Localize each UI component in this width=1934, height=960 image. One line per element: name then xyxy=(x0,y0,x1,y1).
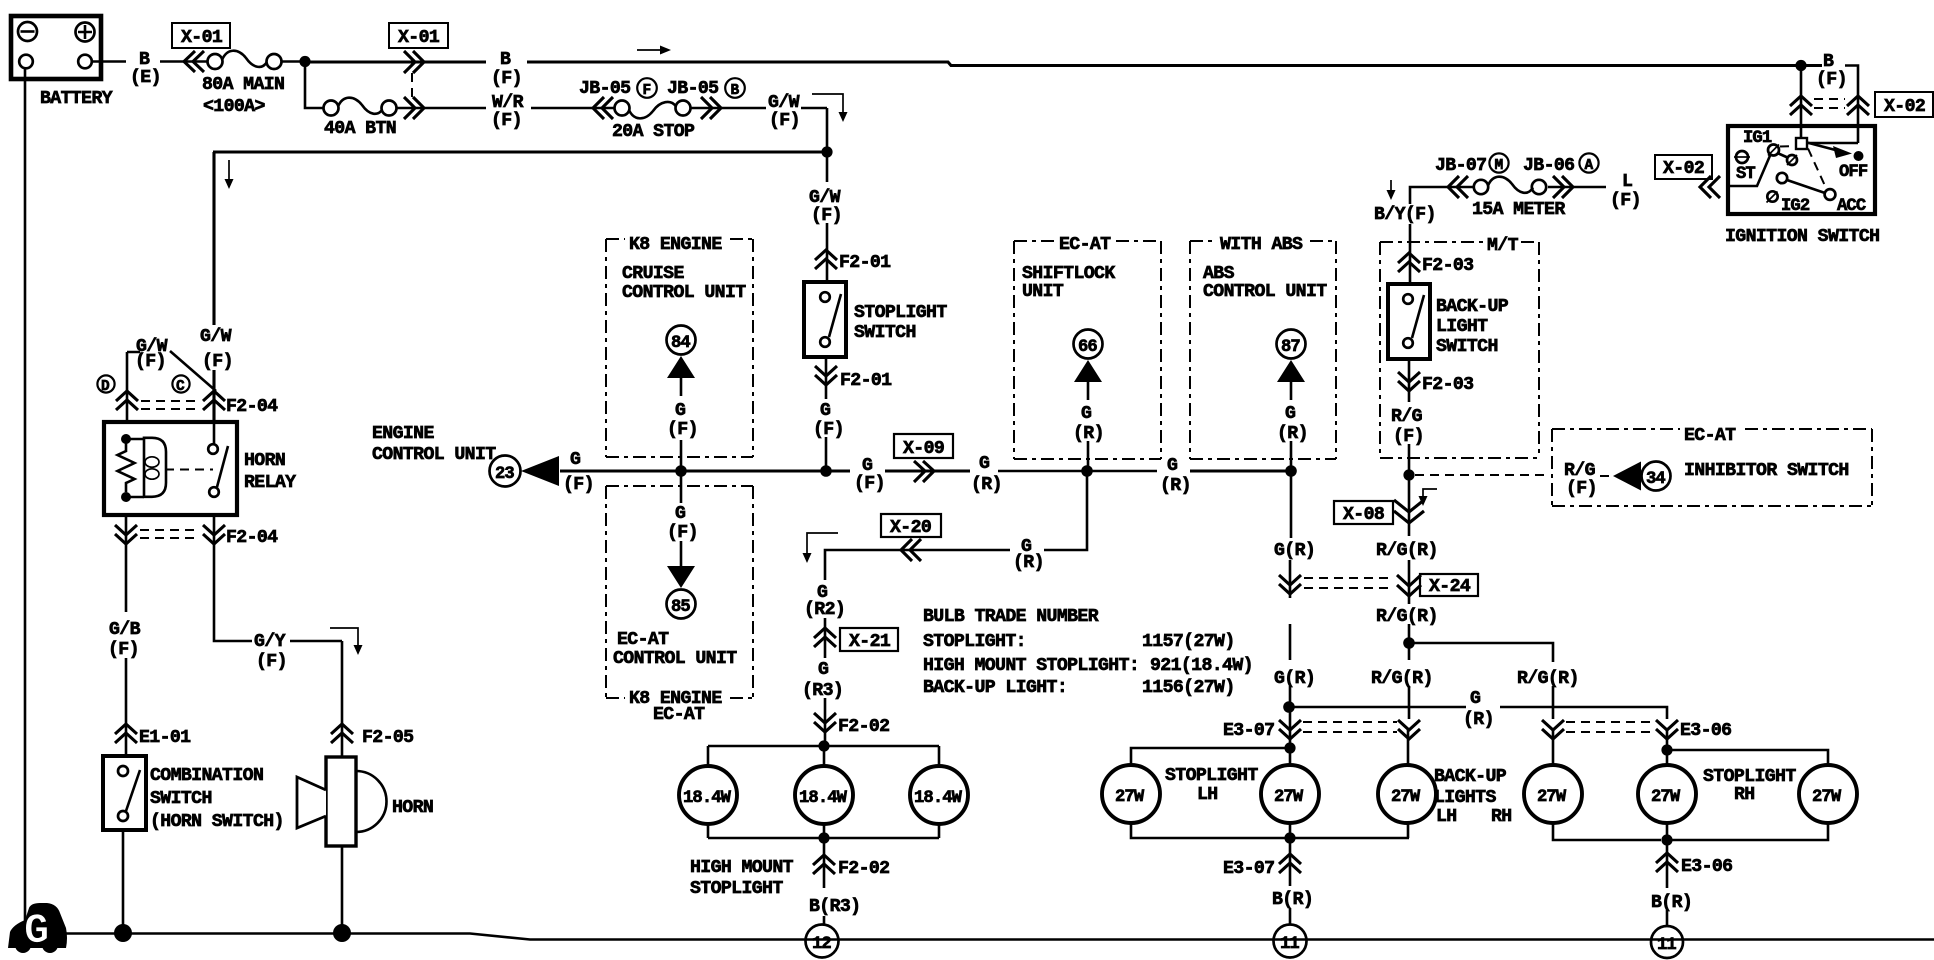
svg-text:BACK-UP: BACK-UP xyxy=(1434,767,1507,787)
SEC-RIGHTMID xyxy=(1014,224,1872,743)
connector E3-06 bottom xyxy=(1656,853,1732,877)
ABS control unit box WITH ABS xyxy=(1190,235,1336,459)
SEC-MIDDLE xyxy=(372,235,1291,958)
svg-text:B: B xyxy=(1823,52,1834,72)
svg-text:F2-04: F2-04 xyxy=(226,397,278,417)
EC-AT control unit terminal 85 xyxy=(667,566,696,619)
junction dot G(R) lamp bus xyxy=(1283,701,1295,713)
connector F2-02 bottom xyxy=(813,855,889,879)
connector X-08 label box xyxy=(1334,501,1393,525)
svg-text:JB-05: JB-05 xyxy=(579,79,630,99)
svg-text:20A STOP: 20A STOP xyxy=(612,122,695,142)
leader line diagonal xyxy=(170,351,216,391)
svg-text:G: G xyxy=(675,401,686,421)
svg-text:STOPLIGHT: STOPLIGHT xyxy=(854,303,947,323)
connector X-02 chevrons pin A xyxy=(1790,96,1812,115)
svg-text:UNIT: UNIT xyxy=(1022,282,1064,302)
svg-text:M/T: M/T xyxy=(1487,236,1519,256)
svg-text:G/W: G/W xyxy=(200,327,232,347)
svg-text:IGNITION SWITCH: IGNITION SWITCH xyxy=(1725,227,1879,247)
horn relay link dashed xyxy=(165,469,213,471)
svg-text:E3-06: E3-06 xyxy=(1680,721,1731,741)
wire backup RH branch xyxy=(1409,643,1553,719)
connector X-02 label box (left) xyxy=(1655,155,1712,179)
svg-text:(F): (F) xyxy=(108,640,139,660)
svg-text:X-02: X-02 xyxy=(1663,159,1704,179)
shiftlock terminal 66 xyxy=(1074,330,1103,401)
svg-text:(F): (F) xyxy=(135,352,166,372)
direction arrow right xyxy=(637,46,671,55)
svg-text:(F): (F) xyxy=(202,352,233,372)
svg-text:ACC: ACC xyxy=(1837,197,1866,216)
svg-text:15A METER: 15A METER xyxy=(1472,200,1565,220)
battery xyxy=(11,16,113,109)
back-up lamp LH xyxy=(1378,765,1436,823)
svg-text:G: G xyxy=(570,450,581,470)
svg-text:A: A xyxy=(1585,158,1594,174)
junction dot ground horn xyxy=(333,924,351,942)
wire to bus xyxy=(825,437,828,468)
connector X-20 chevrons xyxy=(901,539,921,561)
connector F2-05 xyxy=(331,724,413,748)
junction dot stoplight RH bottom xyxy=(1661,834,1672,845)
junction dot R/G inhibitor xyxy=(1403,469,1414,480)
engine control unit terminal 23 xyxy=(490,456,560,487)
label G(R) x20 xyxy=(1013,536,1044,573)
stoplight RH lamp 1 xyxy=(1638,765,1696,823)
svg-text:OFF: OFF xyxy=(1839,163,1868,182)
ignition switch arm C-ACC xyxy=(1777,173,1825,193)
svg-text:F2-03: F2-03 xyxy=(1422,256,1473,276)
svg-text:40A BTN: 40A BTN xyxy=(324,119,396,139)
svg-text:B(R): B(R) xyxy=(1272,890,1313,910)
wire G(F) stoplight switch xyxy=(825,357,828,399)
svg-text:84: 84 xyxy=(671,334,690,353)
wire R/G(F) xyxy=(1408,359,1411,471)
connector X-01 chevrons on W/R xyxy=(404,97,424,119)
svg-text:LIGHT: LIGHT xyxy=(1436,317,1488,337)
wire G(R) branch X-20 xyxy=(825,476,1087,580)
wire G(R) down from abs junction xyxy=(1290,476,1291,598)
svg-text:EC-AT: EC-AT xyxy=(617,630,669,650)
connector X-08 chevrons xyxy=(1394,500,1424,523)
connector X-24 chevron left xyxy=(1279,575,1301,594)
svg-text:JB-07: JB-07 xyxy=(1435,156,1486,176)
connector JB-05 chevrons right xyxy=(701,97,721,119)
horn xyxy=(297,757,433,846)
svg-text:G/Y: G/Y xyxy=(254,632,286,652)
horn relay coil circuit xyxy=(118,434,167,502)
svg-text:(F): (F) xyxy=(1566,479,1597,499)
ignition switch ST contact xyxy=(1734,151,1755,184)
svg-text:STOPLIGHT: STOPLIGHT xyxy=(1165,766,1258,786)
ignition switch ACC contact xyxy=(1825,189,1866,216)
svg-text:K8 ENGINE: K8 ENGINE xyxy=(629,235,722,255)
svg-text:RELAY: RELAY xyxy=(244,473,296,493)
svg-text:(R3): (R3) xyxy=(802,681,843,701)
junction dot cruise xyxy=(675,465,687,477)
wire dashed to inhibitor switch xyxy=(1415,474,1549,476)
wire 40A branch xyxy=(305,61,324,108)
wire stoplight LH lamp rail xyxy=(1131,748,1290,765)
svg-text:RH: RH xyxy=(1491,807,1512,827)
stoplight switch contacts xyxy=(820,292,841,347)
ignition switch dashed linkages xyxy=(1780,146,1826,188)
connector E3-07 chevron left xyxy=(1223,720,1301,741)
svg-text:EC-AT: EC-AT xyxy=(1684,426,1736,446)
svg-text:IG1: IG1 xyxy=(1743,129,1772,148)
svg-text:X-01: X-01 xyxy=(181,28,223,48)
svg-text:X-20: X-20 xyxy=(890,518,931,538)
cruise terminal 84 xyxy=(667,326,696,397)
ground terminal 11 left xyxy=(1274,925,1307,958)
svg-text:G/B: G/B xyxy=(109,620,141,640)
high mount stoplight lamps xyxy=(679,746,968,844)
fuse 80A MAIN xyxy=(202,51,300,117)
svg-text:12: 12 xyxy=(812,935,831,954)
connector X-24 chevron right xyxy=(1397,575,1421,596)
back-up light switch box xyxy=(1388,284,1430,359)
svg-text:80A MAIN: 80A MAIN xyxy=(202,75,284,95)
wire to terminal 85 xyxy=(680,541,683,567)
svg-text:B/Y(F): B/Y(F) xyxy=(1374,205,1436,225)
svg-text:SHIFTLOCK: SHIFTLOCK xyxy=(1022,264,1115,284)
svg-text:IG2: IG2 xyxy=(1781,197,1810,216)
svg-text:27W: 27W xyxy=(1537,788,1567,807)
wire bus G(R) to ABS xyxy=(1190,469,1291,472)
ground terminal 12 xyxy=(806,925,839,958)
svg-text:R/G(R): R/G(R) xyxy=(1376,541,1438,561)
svg-text:STOPLIGHT: STOPLIGHT xyxy=(1703,767,1796,787)
wire B(F) long to right xyxy=(527,62,1822,66)
wire stoplight RH bottom rail xyxy=(1667,823,1828,840)
stoplight LH lamp 2 xyxy=(1261,765,1319,823)
wire R/G down to X-08 xyxy=(1408,480,1411,536)
svg-text:X-01: X-01 xyxy=(398,28,440,48)
svg-text:F2-02: F2-02 xyxy=(838,717,889,737)
svg-text:JB-06: JB-06 xyxy=(1523,156,1574,176)
fuse 15A METER xyxy=(1472,177,1565,220)
ground terminal 11 right xyxy=(1651,926,1683,958)
svg-text:BACK-UP LIGHT:: BACK-UP LIGHT: xyxy=(923,678,1067,698)
svg-text:ENGINE: ENGINE xyxy=(372,424,434,444)
svg-text:X-08: X-08 xyxy=(1343,505,1384,525)
svg-text:LH: LH xyxy=(1197,785,1218,805)
connector E3-06 dashed links xyxy=(1566,722,1655,732)
junction dot stoplight RH top xyxy=(1661,744,1672,755)
wire G/W left branch xyxy=(213,152,827,424)
wire L(F) xyxy=(1548,186,1606,189)
junction dot abs xyxy=(1285,465,1297,477)
connector JB chevrons right of meter fuse xyxy=(1553,176,1573,198)
svg-text:G: G xyxy=(1285,404,1296,424)
fuse 40A BTN xyxy=(324,98,397,139)
cruise control unit box K8 ENGINE xyxy=(606,235,753,457)
svg-text:(HORN SWITCH): (HORN SWITCH) xyxy=(150,812,284,832)
svg-text:18.4W: 18.4W xyxy=(683,789,732,808)
svg-text:G/W: G/W xyxy=(809,188,841,208)
svg-text:HORN: HORN xyxy=(244,451,285,471)
svg-text:SWITCH: SWITCH xyxy=(1436,337,1498,357)
svg-text:LH: LH xyxy=(1436,807,1457,827)
direction arrow down B/Y xyxy=(1387,180,1396,200)
connector E3-06 chevron right xyxy=(1656,720,1731,741)
svg-text:1157(27W): 1157(27W) xyxy=(1142,632,1235,652)
svg-text:C: C xyxy=(176,379,185,395)
junction dot ground combination xyxy=(114,924,132,942)
svg-text:SWITCH: SWITCH xyxy=(854,323,916,343)
connector F2-03 bottom xyxy=(1398,372,1473,395)
wire bus to EC-AT unit xyxy=(680,476,683,503)
svg-text:23: 23 xyxy=(495,465,514,484)
svg-text:WITH ABS: WITH ABS xyxy=(1220,235,1303,255)
wire G(R) to lamp junction xyxy=(1289,624,1292,743)
wire G(R) lamp bus xyxy=(1289,707,1667,719)
svg-text:G: G xyxy=(818,660,829,680)
connector X-09 label box xyxy=(894,434,953,459)
svg-text:921(18.4W): 921(18.4W) xyxy=(1150,656,1253,676)
svg-text:CONTROL UNIT: CONTROL UNIT xyxy=(622,283,746,303)
connector JB chevrons left of meter fuse xyxy=(1448,176,1468,198)
svg-text:SWITCH: SWITCH xyxy=(150,789,212,809)
svg-text:BATTERY: BATTERY xyxy=(40,89,113,109)
connector JB-05 chevrons left xyxy=(593,97,613,119)
wire stoplight RH rail xyxy=(1667,730,1828,765)
connector X-09 chevrons xyxy=(914,461,934,482)
svg-text:X-02: X-02 xyxy=(1884,97,1925,117)
junction dot stoplight LH xyxy=(1284,742,1295,753)
svg-text:G: G xyxy=(979,454,990,474)
wire B/Y to F2-03 xyxy=(1409,224,1412,286)
connector F2-03 top xyxy=(1398,253,1473,276)
svg-text:(E): (E) xyxy=(130,68,161,88)
svg-text:X-21: X-21 xyxy=(849,632,891,652)
node D xyxy=(97,375,114,395)
svg-text:RH: RH xyxy=(1734,785,1755,805)
svg-text:27W: 27W xyxy=(1812,788,1842,807)
connector X-21 xyxy=(814,628,898,652)
ignition switch contact B xyxy=(1779,154,1798,166)
wire R/G(R) xyxy=(1408,560,1411,604)
wire backup RH lamp leads xyxy=(1553,730,1661,840)
wire G/W stub pin D xyxy=(127,352,140,424)
wire G/Y(F) xyxy=(214,515,342,641)
svg-text:EC-AT: EC-AT xyxy=(653,705,705,725)
svg-text:F: F xyxy=(643,83,651,99)
svg-text:(R): (R) xyxy=(1013,553,1044,573)
ignition switch IG2 contact xyxy=(1767,191,1810,216)
connector E1-01 xyxy=(115,724,191,748)
wire cruise to bus xyxy=(680,440,683,466)
ignition switch arm L to IG1 xyxy=(1728,155,1771,187)
wire G/B(F) xyxy=(125,515,128,757)
combination switch contacts xyxy=(118,766,140,821)
wire B(F) top xyxy=(305,60,486,63)
wire battery negative to ground xyxy=(24,69,27,923)
svg-text:(F): (F) xyxy=(1816,70,1847,90)
connector X-02 label box (top) xyxy=(1875,92,1933,117)
svg-text:11: 11 xyxy=(1280,935,1299,954)
svg-text:BACK-UP: BACK-UP xyxy=(1436,297,1509,317)
stoplight switch box xyxy=(804,282,846,357)
svg-text:E3-07: E3-07 xyxy=(1223,721,1274,741)
wire B to X-02 pin A xyxy=(1800,66,1803,140)
wire bus G(F)/G(R) xyxy=(560,469,970,472)
svg-text:F2-05: F2-05 xyxy=(362,728,413,748)
ignition switch OFF arm xyxy=(1807,143,1868,183)
svg-text:STOPLIGHT: STOPLIGHT xyxy=(690,879,783,899)
svg-text:R/G(R): R/G(R) xyxy=(1371,669,1433,689)
svg-text:(F): (F) xyxy=(1393,427,1424,447)
svg-text:D: D xyxy=(101,379,110,395)
ABS terminal 87 xyxy=(1277,330,1306,401)
svg-text:BULB TRADE NUMBER: BULB TRADE NUMBER xyxy=(923,607,1099,627)
combination switch box xyxy=(103,756,146,830)
connector X-02 chevrons pin B xyxy=(1847,96,1869,115)
svg-text:M: M xyxy=(1495,158,1503,174)
svg-text:CONTROL UNIT: CONTROL UNIT xyxy=(613,649,737,669)
svg-text:F2-03: F2-03 xyxy=(1422,375,1473,395)
stoplight RH lamp 2 xyxy=(1799,765,1857,823)
connector X-02 chevrons on L xyxy=(1700,176,1720,198)
svg-text:ST: ST xyxy=(1736,165,1755,184)
wire combination switch to ground xyxy=(122,830,125,928)
svg-text:E3-07: E3-07 xyxy=(1223,859,1274,879)
label JB-07 M JB-06 A xyxy=(1435,153,1599,176)
svg-text:(F): (F) xyxy=(667,523,698,543)
svg-text:HORN: HORN xyxy=(392,798,433,818)
svg-text:G(R): G(R) xyxy=(1274,541,1315,561)
wire bus G(R) thin xyxy=(998,470,1157,473)
M/T box xyxy=(1380,236,1539,458)
svg-text:STOPLIGHT:: STOPLIGHT: xyxy=(923,632,1026,652)
svg-text:HIGH MOUNT: HIGH MOUNT xyxy=(690,858,794,878)
wire down to horn xyxy=(341,641,344,758)
svg-text:G: G xyxy=(1081,404,1092,424)
svg-text:27W: 27W xyxy=(1115,788,1145,807)
svg-text:(R): (R) xyxy=(1277,424,1308,444)
svg-text:27W: 27W xyxy=(1274,788,1304,807)
wire B(R) stoplight RH xyxy=(1666,840,1669,927)
connector E3-07 dashed links xyxy=(1303,722,1397,732)
direction arrow down G/Y xyxy=(330,628,363,655)
svg-text:(R2): (R2) xyxy=(804,600,845,620)
svg-text:27W: 27W xyxy=(1651,788,1681,807)
wire stoplight LH bottom rail xyxy=(1131,823,1409,838)
svg-text:E1-01: E1-01 xyxy=(139,728,191,748)
junction dot stoplight xyxy=(820,465,832,477)
junction dot stoplight LH bottom xyxy=(1284,832,1295,843)
svg-text:18.4W: 18.4W xyxy=(914,789,963,808)
wire G(R3) xyxy=(824,618,827,742)
svg-text:F2-01: F2-01 xyxy=(840,371,892,391)
node C xyxy=(172,375,189,395)
wire backup LH down xyxy=(1408,648,1411,719)
connector E3-07 chevron right xyxy=(1398,720,1420,739)
wire into ignition switch xyxy=(1807,142,1858,145)
shiftlock unit box EC-AT xyxy=(1014,235,1161,459)
wire R/G(R) lower xyxy=(1408,624,1411,638)
svg-text:INHIBITOR SWITCH: INHIBITOR SWITCH xyxy=(1684,461,1849,481)
connector X-01 label box (right) xyxy=(389,23,448,48)
svg-text:LIGHTS: LIGHTS xyxy=(1434,788,1496,808)
connector X-24 dashed links xyxy=(1304,578,1394,588)
svg-text:HIGH MOUNT STOPLIGHT:: HIGH MOUNT STOPLIGHT: xyxy=(923,656,1139,676)
svg-text:(F): (F) xyxy=(491,111,522,131)
connector F2-04 chevrons top xyxy=(116,391,278,417)
wire B(E) xyxy=(92,60,208,63)
junction dot main xyxy=(299,56,310,67)
back-up light switch contacts xyxy=(1403,294,1424,348)
svg-text:G(R): G(R) xyxy=(1274,669,1315,689)
horn relay box xyxy=(104,422,237,515)
direction arrow X-08 xyxy=(1419,489,1438,506)
connector X-01 chevrons on B(E) xyxy=(184,51,204,72)
svg-text:L: L xyxy=(1622,172,1632,192)
svg-text:R/G: R/G xyxy=(1564,461,1596,481)
inhibitor terminal 34 xyxy=(1600,462,1671,491)
svg-text:G: G xyxy=(675,504,686,524)
junction dot B(F) right xyxy=(1795,60,1806,71)
SEC-BOTTOM xyxy=(8,689,1934,958)
ignition switch IG1 contact xyxy=(1743,129,1779,156)
svg-text:R/G: R/G xyxy=(1391,407,1423,427)
fuse 20A STOP xyxy=(612,101,695,143)
svg-text:G: G xyxy=(1470,689,1481,709)
SEC-HORN xyxy=(97,327,433,942)
svg-text:JB-05: JB-05 xyxy=(667,79,718,99)
svg-text:R/G(R): R/G(R) xyxy=(1376,607,1438,627)
svg-text:ABS: ABS xyxy=(1203,264,1235,284)
svg-text:B(R): B(R) xyxy=(1651,893,1692,913)
wire horn to ground xyxy=(341,846,344,928)
connector X-20 label box xyxy=(881,514,941,538)
junction dot backup split xyxy=(1403,637,1415,649)
connector F2-02 top xyxy=(814,713,889,737)
SEC-TOPRIGHT xyxy=(1374,52,1933,247)
svg-text:X-24: X-24 xyxy=(1429,577,1471,597)
svg-text:(R): (R) xyxy=(1160,476,1191,496)
svg-text:27W: 27W xyxy=(1391,788,1421,807)
svg-text:CRUISE: CRUISE xyxy=(622,264,684,284)
wire abs to bus xyxy=(1290,441,1293,466)
svg-text:(F): (F) xyxy=(667,420,698,440)
svg-text:(F): (F) xyxy=(811,206,842,226)
svg-text:W/R: W/R xyxy=(492,93,524,113)
svg-text:(F): (F) xyxy=(491,69,522,89)
svg-text:EC-AT: EC-AT xyxy=(1059,235,1111,255)
svg-text:34: 34 xyxy=(1646,470,1665,489)
svg-text:<100A>: <100A> xyxy=(203,97,265,117)
svg-text:1156(27W): 1156(27W) xyxy=(1142,678,1235,698)
svg-text:(F): (F) xyxy=(563,475,594,495)
svg-text:G: G xyxy=(24,907,49,955)
connector X-24 label box xyxy=(1420,574,1478,597)
svg-text:X-09: X-09 xyxy=(903,439,944,459)
ground bus xyxy=(62,934,1934,940)
svg-text:COMBINATION: COMBINATION xyxy=(150,766,263,786)
junction dot shiftlock xyxy=(1081,465,1093,477)
connector X-02 dashed links xyxy=(1814,99,1845,108)
junction dot high mount top xyxy=(818,740,829,751)
junction dot G/W xyxy=(821,146,832,157)
back-up lamp RH xyxy=(1524,765,1582,823)
svg-text:F2-04: F2-04 xyxy=(226,528,278,548)
svg-text:(F): (F) xyxy=(813,420,844,440)
label JB-05 F JB-05 B xyxy=(579,78,745,99)
svg-text:B: B xyxy=(500,50,511,70)
svg-text:(F): (F) xyxy=(256,652,287,672)
